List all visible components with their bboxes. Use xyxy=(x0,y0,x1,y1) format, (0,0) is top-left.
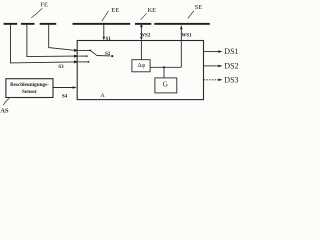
arrowhead WS1 up at SE bar xyxy=(180,26,183,30)
svg-text:KE: KE xyxy=(147,7,156,14)
wire stub contact 3 xyxy=(79,61,89,63)
box A xyxy=(77,41,203,100)
leader FE xyxy=(31,8,42,18)
electrode SE bar xyxy=(154,23,210,25)
wire FE2 to box A xyxy=(27,25,75,57)
leader SE xyxy=(188,11,194,19)
svg-text:S4: S4 xyxy=(62,94,68,99)
electrode KE bar xyxy=(135,23,151,25)
contact dot 3 xyxy=(88,61,90,63)
wire output DS3 (dashed) xyxy=(204,79,219,81)
wire KE stem WS2 xyxy=(140,25,142,37)
switch S2 pole wire xyxy=(97,55,111,57)
svg-text:Δφ: Δφ xyxy=(138,62,146,69)
svg-text:A: A xyxy=(100,93,105,99)
leader EE xyxy=(102,11,109,21)
arrowhead contact 1 xyxy=(74,49,79,52)
arrowhead DS3 xyxy=(218,79,222,82)
junction dot KE xyxy=(140,25,142,27)
wire delta-phi to junction xyxy=(150,66,181,68)
wire SE stem WS1 xyxy=(180,26,182,68)
svg-text:AS: AS xyxy=(0,108,9,114)
electrode EE bar xyxy=(73,23,131,25)
svg-text:S3: S3 xyxy=(58,65,64,70)
arrowhead contact 2 xyxy=(74,55,79,58)
wire FE3 to box A xyxy=(49,25,75,51)
arrowhead S1 down xyxy=(103,37,106,41)
wire FE1 to box A xyxy=(11,25,75,63)
svg-text:DS3: DS3 xyxy=(224,75,238,84)
svg-text:DS2: DS2 xyxy=(224,62,238,71)
wire EE stem S1 xyxy=(103,25,105,38)
svg-text:EE: EE xyxy=(111,7,119,14)
svg-text:WS2: WS2 xyxy=(140,34,151,39)
op block delta-phi U1 xyxy=(132,60,150,72)
electrode FE3 bar xyxy=(40,23,57,25)
arrowhead WS2 down xyxy=(140,37,143,41)
svg-text:S1: S1 xyxy=(106,37,112,42)
electrode FE2 bar xyxy=(21,23,35,25)
switch S2 blade xyxy=(90,50,96,55)
pole dot S2 xyxy=(111,55,113,57)
contact dot 1 / blade pivot xyxy=(89,50,91,52)
contact dot 2 xyxy=(86,55,88,57)
arrowhead DS1 xyxy=(218,50,222,53)
svg-text:G: G xyxy=(163,81,168,89)
wire stub contact 2 xyxy=(79,55,87,57)
arrowhead DS2 xyxy=(218,65,222,68)
wire junction to G xyxy=(163,67,165,78)
svg-text:DS1: DS1 xyxy=(224,47,238,56)
svg-text:FE: FE xyxy=(40,1,48,8)
wire output DS2 xyxy=(204,65,219,67)
wire stub contact 1 xyxy=(79,49,90,51)
leader KE xyxy=(141,13,147,20)
leader AS xyxy=(3,98,9,105)
wire sensor AS to box A xyxy=(53,87,73,89)
svg-text:WS1: WS1 xyxy=(181,34,192,39)
arrowhead sensor into A xyxy=(73,86,77,89)
arrowhead contact 3 xyxy=(74,60,79,63)
generator block G xyxy=(155,78,177,93)
electrode FE1 bar xyxy=(4,23,18,25)
svg-text:SE: SE xyxy=(195,4,203,11)
svg-text:S2: S2 xyxy=(105,52,111,57)
wire output DS1 xyxy=(204,51,219,53)
svg-text:Sensor: Sensor xyxy=(22,89,38,95)
wire WS2 into delta-phi xyxy=(140,40,142,59)
svg-text:Beschleunigungs-: Beschleunigungs- xyxy=(10,82,49,88)
sensor box AS xyxy=(6,79,53,98)
junction dot G node xyxy=(163,66,165,68)
